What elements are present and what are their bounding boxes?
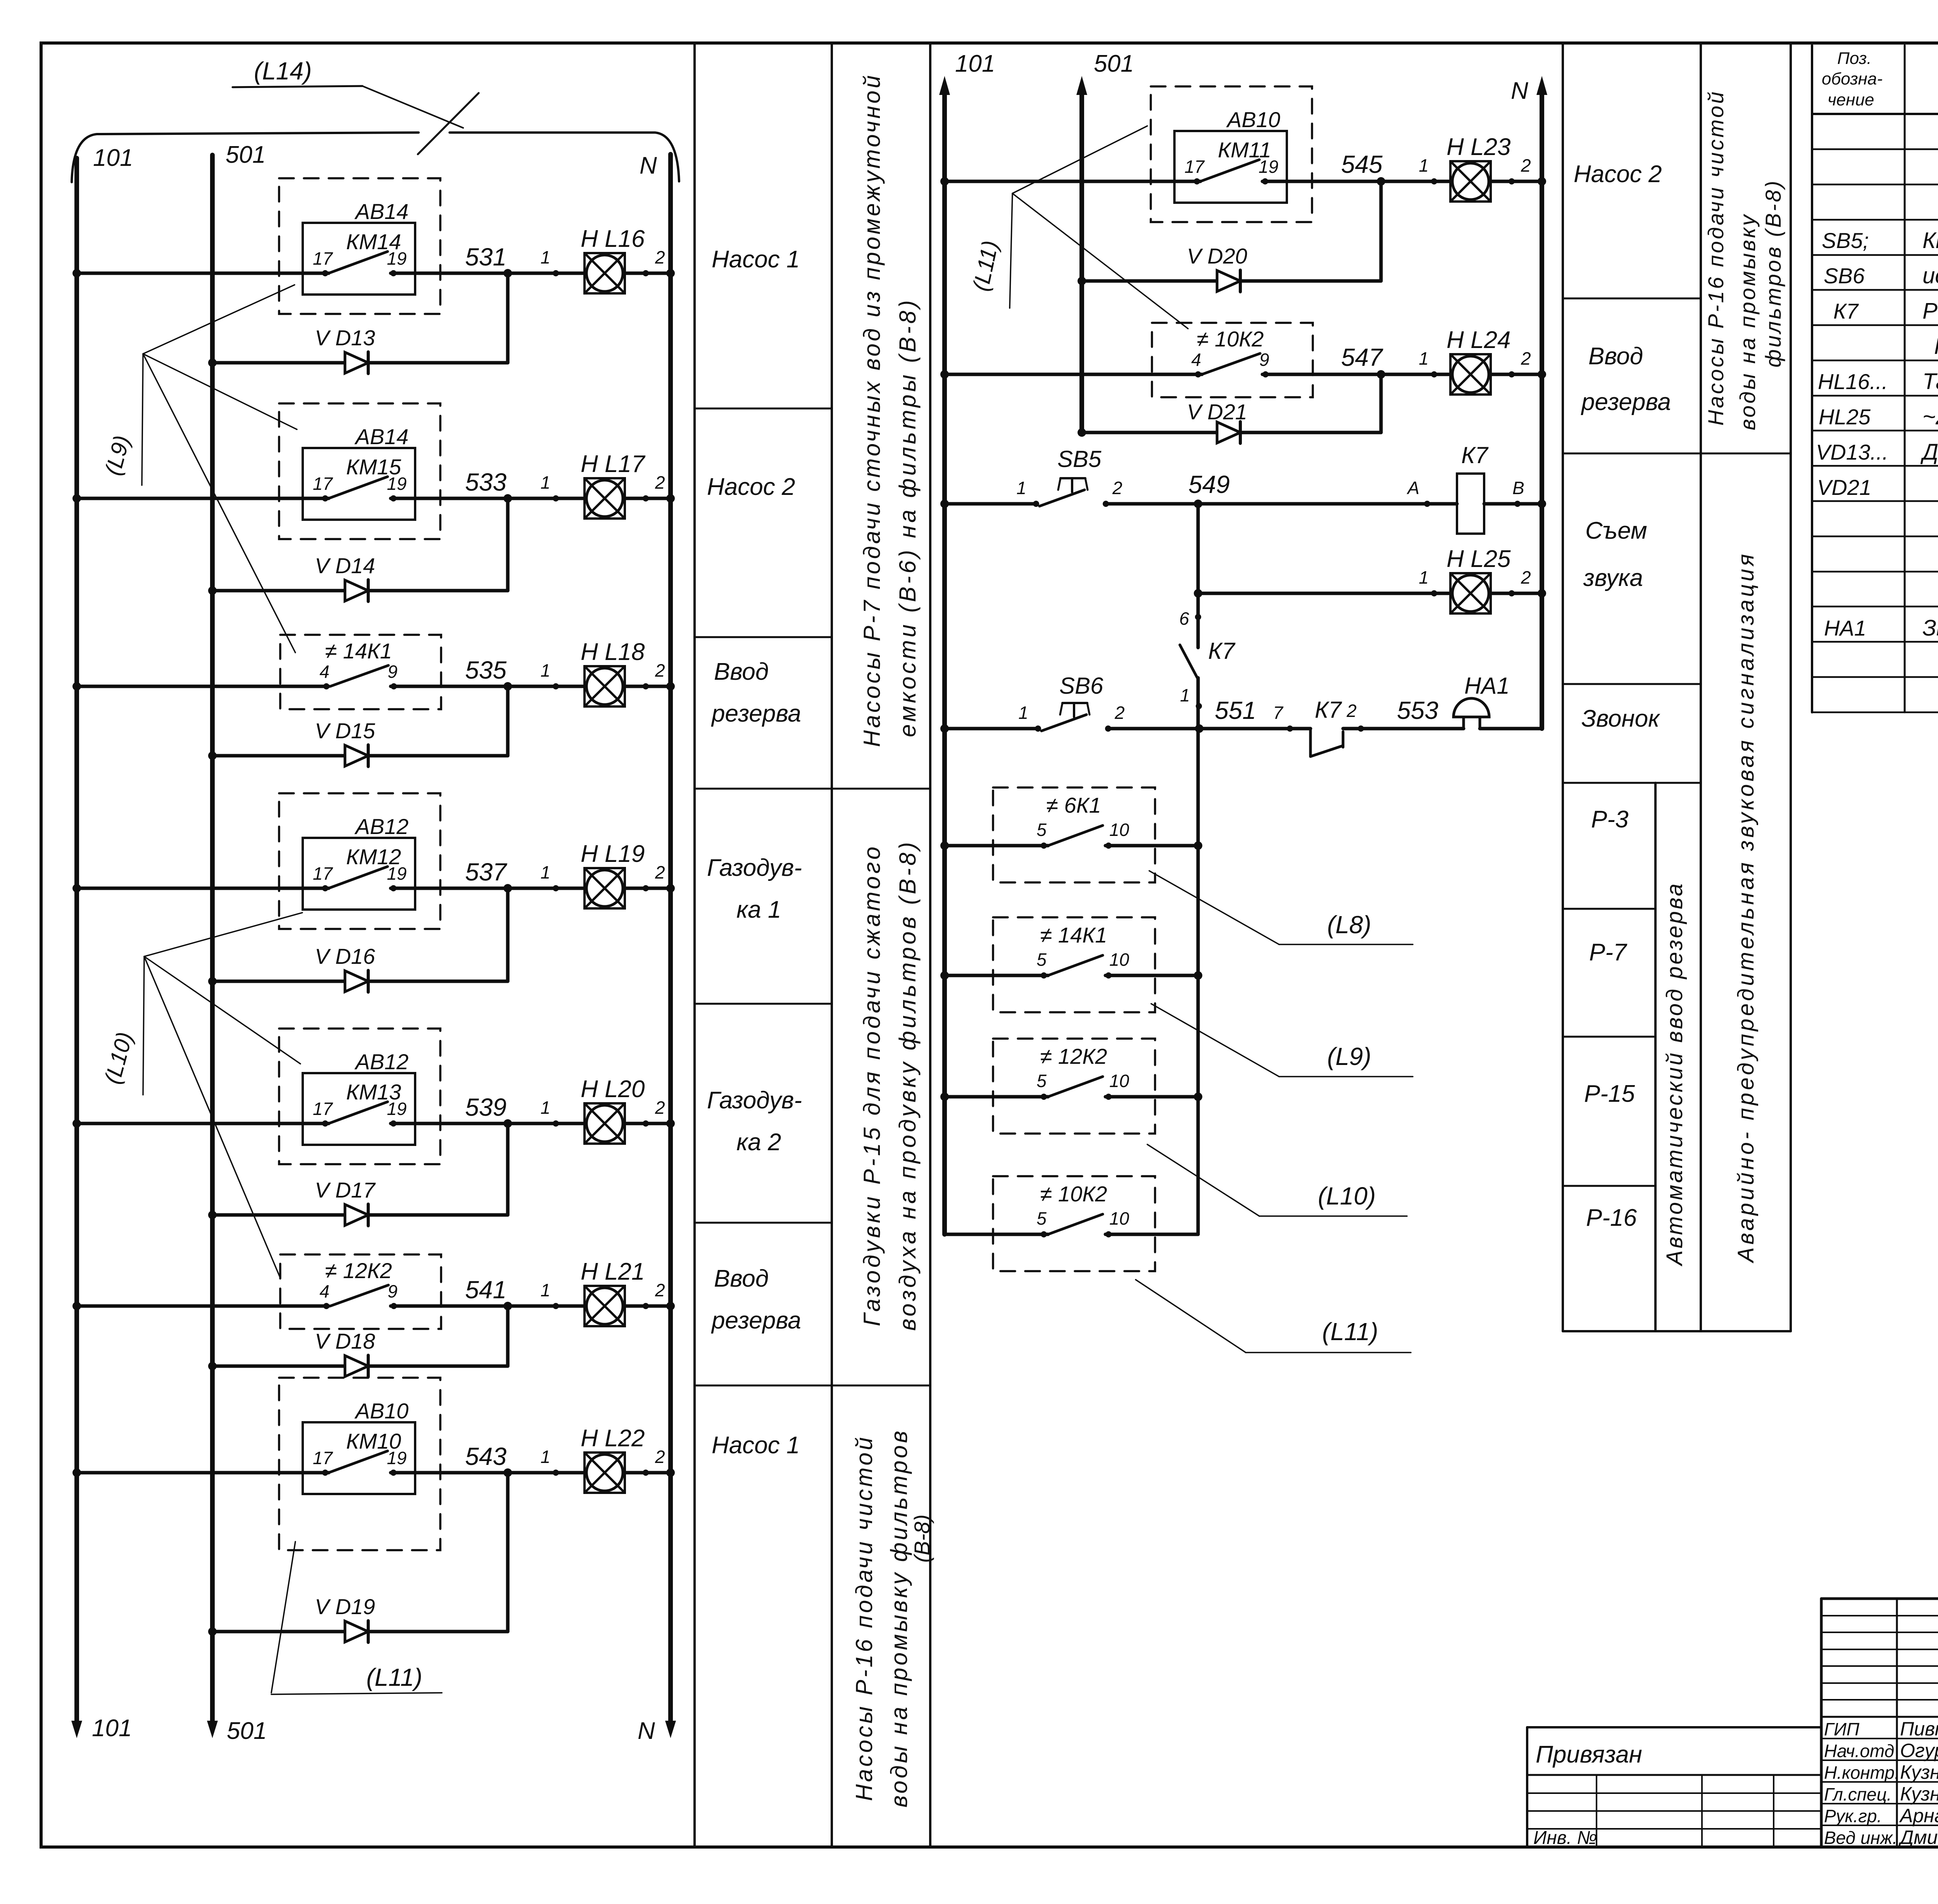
signature row line xyxy=(1821,1738,1938,1739)
title block top edge xyxy=(1821,1597,1938,1600)
pin 7 (K7 break contact) xyxy=(1287,725,1293,732)
parts table row line xyxy=(1812,465,1938,467)
label (L8) underline xyxy=(1279,944,1413,945)
lamp pin 1 xyxy=(553,1303,559,1309)
pin 6 (K7 contact) xyxy=(1195,614,1201,620)
svg-text:1: 1 xyxy=(540,862,550,882)
parts table row line xyxy=(1812,712,1938,713)
contact pins xyxy=(322,885,328,891)
branch wire down to diode row xyxy=(506,1473,510,1632)
lamp pin 1 xyxy=(1431,178,1437,184)
wire bell to bus N xyxy=(1480,727,1542,731)
parts table row line xyxy=(1812,184,1938,186)
svg-text:≠ 10К2: ≠ 10К2 xyxy=(1197,327,1264,351)
contact pins xyxy=(1194,178,1200,184)
junction 101 xyxy=(940,1092,949,1101)
lamp pin 1 xyxy=(553,495,559,501)
lamp HL24 xyxy=(1450,354,1491,395)
diode row wire VD20 xyxy=(1082,279,1381,283)
junction 101/SB6 rung xyxy=(940,724,949,733)
rung wire 541 contact to bus N xyxy=(391,1304,671,1308)
rung wire 549: bus101 to SB5 xyxy=(945,502,1036,506)
title block grid row xyxy=(1821,1682,1938,1684)
svg-text:17: 17 xyxy=(1185,157,1205,177)
svg-text:V D17: V D17 xyxy=(315,1178,376,1202)
contact pins xyxy=(322,1120,328,1127)
svg-text:H L24: H L24 xyxy=(1447,327,1510,353)
contactor КМ11 coil unit box xyxy=(1174,131,1287,203)
pin 1 (K7 contact) xyxy=(1196,703,1202,709)
title block grid/signature divider xyxy=(1821,1716,1938,1718)
junction on bus 101 xyxy=(72,1468,81,1477)
lamp pin 2 xyxy=(1509,178,1515,184)
привязан vertical 4576 xyxy=(1773,1775,1774,1847)
svg-text:H L21: H L21 xyxy=(581,1258,645,1285)
привязан block top xyxy=(1527,1726,1821,1728)
svg-text:VD21: VD21 xyxy=(1817,475,1871,500)
branch wire down to diode row xyxy=(506,1123,510,1215)
svg-text:1: 1 xyxy=(1419,567,1429,588)
svg-text:Автоматический ввод резерва: Автоматический ввод резерва xyxy=(1662,882,1687,1266)
svg-text:1: 1 xyxy=(540,472,550,493)
junction 549 to collector xyxy=(1194,500,1202,508)
привязан grid row xyxy=(1527,1792,1821,1794)
svg-text:Инв. №: Инв. № xyxy=(1533,1828,1597,1848)
svg-text:SB5: SB5 xyxy=(1057,446,1102,472)
svg-text:1: 1 xyxy=(540,660,550,681)
rung wire 543 from bus 101 to contact xyxy=(77,1471,329,1475)
svg-text:1: 1 xyxy=(540,247,550,267)
leader (Л9) to 14К1 box xyxy=(143,354,295,653)
rung wire 539 contact to bus N xyxy=(391,1122,671,1125)
bus 501 (left) xyxy=(210,155,215,1721)
svg-text:545: 545 xyxy=(1341,150,1383,178)
contact pins xyxy=(323,683,329,689)
lamp pin 1 xyxy=(553,885,559,891)
svg-text:N: N xyxy=(638,1718,655,1744)
parts table outer left edge xyxy=(1811,45,1813,712)
pin 2 (K7 break contact) xyxy=(1358,725,1364,732)
rung wire 535 from bus 101 to contact xyxy=(77,685,329,688)
svg-text:Огурцов: Огурцов xyxy=(1900,1740,1938,1761)
parts table row line xyxy=(1812,500,1938,502)
junction on bus 501 xyxy=(208,1362,217,1370)
svg-text:2: 2 xyxy=(1521,155,1531,176)
svg-text:Табло световое ТСМ-Ш-У3-01: Табло световое ТСМ-Ш-У3-01 ; xyxy=(1922,369,1938,394)
svg-text:Газодувки Р-15 для подачи сжат: Газодувки Р-15 для подачи сжатого xyxy=(859,844,885,1327)
svg-text:А: А xyxy=(1406,478,1419,498)
lamp pin 1 xyxy=(553,270,559,276)
junction 101/547 xyxy=(940,370,949,379)
bus 101 (left) xyxy=(74,158,79,1721)
svg-text:H L17: H L17 xyxy=(581,451,646,477)
svg-text:19: 19 xyxy=(387,474,407,494)
parts table row line xyxy=(1812,395,1938,397)
title block grid row xyxy=(1821,1615,1938,1616)
lamp pin 2 xyxy=(643,1303,649,1309)
junction on bus 101 xyxy=(72,884,81,893)
contact rung ≠10К2: wire to collector xyxy=(1105,1233,1198,1236)
middle label column divider (labels | Авто col) xyxy=(1654,783,1657,1331)
lamp pin 2 xyxy=(643,885,649,891)
bus 501 (middle) xyxy=(1079,93,1084,432)
svg-text:(L9): (L9) xyxy=(1327,1042,1371,1070)
contactor КМ14 coil unit box xyxy=(303,223,415,295)
rung wire 547 contact to bus N xyxy=(1262,373,1542,376)
lamp pin 1 xyxy=(553,1470,559,1476)
svg-text:2: 2 xyxy=(1112,478,1122,498)
rung wire 547 bus101 to contact xyxy=(945,373,1202,376)
middle label column bottom xyxy=(1563,1330,1791,1332)
contactor КМ15 coil unit box xyxy=(303,448,415,520)
contactor КМ10 coil unit box xyxy=(303,1422,415,1494)
leader (Л11) to KM10 box xyxy=(271,1542,295,1693)
K7 break contact xyxy=(1290,727,1310,731)
parts table col divider 1 xyxy=(1904,45,1906,712)
привязан grid row xyxy=(1527,1810,1821,1812)
svg-text:HL16...: HL16... xyxy=(1818,369,1888,394)
svg-text:К7: К7 xyxy=(1208,638,1236,664)
signature row line xyxy=(1821,1759,1938,1761)
svg-text:резерва: резерва xyxy=(711,700,801,727)
contact blade xyxy=(329,867,388,888)
leader (Л11) to АВ10 box xyxy=(1012,126,1147,193)
привязан vertical 4119 xyxy=(1596,1775,1597,1847)
leader line to (L10) xyxy=(1147,1144,1259,1216)
junction collector xyxy=(1194,971,1202,980)
junction 101/545 xyxy=(940,177,949,186)
diode VD15 xyxy=(345,745,368,767)
svg-text:H L20: H L20 xyxy=(581,1076,645,1103)
svg-text:Насос 1: Насос 1 xyxy=(712,1432,800,1459)
left label row separator xyxy=(695,636,832,638)
rung wire 545 bus101 to contact xyxy=(945,180,1200,183)
middle label separator Ввод/Съем (full) xyxy=(1563,453,1791,455)
svg-text:Р-15: Р-15 xyxy=(1584,1080,1635,1107)
junction on bus N xyxy=(666,682,675,691)
contact rung ≠6К1: wire bus101 to contact xyxy=(945,844,1048,848)
lamp HL22 xyxy=(585,1453,625,1493)
leader (Л10) to KM13 box xyxy=(144,956,300,1064)
svg-text:1: 1 xyxy=(1419,348,1429,369)
привязан row bottom xyxy=(1527,1774,1821,1776)
title block grid row xyxy=(1821,1632,1938,1633)
diode row wire VD21 xyxy=(1082,431,1381,434)
svg-text:535: 535 xyxy=(465,656,507,684)
svg-text:2: 2 xyxy=(1346,701,1357,721)
svg-text:Газодув-: Газодув- xyxy=(707,855,802,881)
leader (Л11) to 10К2 box xyxy=(1012,193,1188,329)
svg-text:(В-8): (В-8) xyxy=(910,1515,934,1563)
svg-text:Н.контр.: Н.контр. xyxy=(1824,1763,1900,1783)
svg-text:Ввод: Ввод xyxy=(1588,343,1643,370)
corner 501/VD21 xyxy=(1078,428,1086,437)
rung wire 533 contact to bus N xyxy=(391,497,671,500)
junction 101 xyxy=(940,841,949,850)
svg-text:V D20: V D20 xyxy=(1187,244,1247,268)
svg-text:≠ 14К1: ≠ 14К1 xyxy=(325,639,392,663)
svg-text:19: 19 xyxy=(1259,157,1278,177)
svg-text:звука: звука xyxy=(1583,565,1643,591)
svg-text:Насосы Р-16 подачи чистой: Насосы Р-16 подачи чистой xyxy=(851,1435,877,1801)
svg-text:емкости (В-6) на фильтры (: емкости (В-6) на фильтры (В-8) xyxy=(895,298,921,737)
rung wire 537 contact to bus N xyxy=(391,887,671,890)
svg-text:Р-16: Р-16 xyxy=(1586,1204,1637,1231)
junction on bus 501 xyxy=(208,1211,217,1219)
junction on bus N xyxy=(666,494,675,503)
contact ≠10К2 dashed enclosure xyxy=(1152,323,1313,397)
branch wire down to diode row xyxy=(506,1306,510,1366)
svg-text:Вед инж.: Вед инж. xyxy=(1824,1828,1897,1848)
contact blade xyxy=(329,1102,388,1123)
leader from (L14) to bracket xyxy=(362,86,463,128)
contact blade xyxy=(329,1451,388,1473)
svg-text:543: 543 xyxy=(465,1442,507,1470)
branch wire down to diode row xyxy=(506,686,510,756)
svg-text:НА1: НА1 xyxy=(1824,616,1866,640)
junction on bus 101 xyxy=(72,269,81,277)
svg-text:2: 2 xyxy=(1521,348,1531,369)
svg-text:1: 1 xyxy=(540,1280,550,1300)
svg-text:Привязан: Привязан xyxy=(1536,1741,1642,1768)
привязан block left edge xyxy=(1526,1727,1528,1847)
signature row line xyxy=(1821,1825,1938,1826)
contactor КМ11 (АВ10) dashed enclosure xyxy=(1151,86,1312,222)
junction 547/VD21 xyxy=(1377,370,1385,379)
svg-text:H L22: H L22 xyxy=(581,1425,645,1452)
rung wire 533 from bus 101 to contact xyxy=(77,497,329,500)
parts table row line xyxy=(1812,571,1938,573)
rung wire: bus101 to SB6 xyxy=(945,727,1038,731)
rung wire 541 from bus 101 to contact xyxy=(77,1304,329,1308)
svg-text:101: 101 xyxy=(955,50,995,77)
contactor КМ14 (АВ14) dashed enclosure xyxy=(279,178,440,314)
contact blade xyxy=(1202,353,1260,374)
svg-text:АВ10: АВ10 xyxy=(1226,107,1280,132)
contact rung ≠12К2: wire bus101 to contact xyxy=(945,1095,1048,1099)
svg-text:19: 19 xyxy=(387,863,407,884)
svg-text:Нач.отд: Нач.отд xyxy=(1824,1741,1894,1761)
contact blade xyxy=(329,252,388,273)
bus N (middle) xyxy=(1540,93,1544,729)
line group bracket (L14) xyxy=(72,133,679,182)
svg-text:H L25: H L25 xyxy=(1447,546,1511,572)
title block vertical 4894 xyxy=(1896,1599,1898,1847)
contact pins xyxy=(322,1470,328,1476)
svg-text:Дмитриева: Дмитриева xyxy=(1898,1826,1938,1848)
svg-text:(L10): (L10) xyxy=(1318,1182,1376,1210)
junction to diode branch xyxy=(503,1468,512,1477)
svg-text:10: 10 xyxy=(1109,949,1129,970)
svg-text:HL25: HL25 xyxy=(1819,405,1871,429)
svg-text:АВ14: АВ14 xyxy=(354,424,409,449)
junction on bus 101 xyxy=(72,1119,81,1128)
junction on bus 501 xyxy=(208,977,217,986)
pin В xyxy=(1514,501,1521,507)
lamp pin 2 xyxy=(643,270,649,276)
diode row wire VD16 xyxy=(212,980,508,983)
rung wire 545 contact to bus N xyxy=(1262,180,1542,183)
diode VD19 xyxy=(345,1621,368,1642)
branch wire down to diode row xyxy=(506,273,510,363)
junction to diode branch xyxy=(503,269,512,277)
svg-text:НА1: НА1 xyxy=(1464,673,1510,699)
left section divider (labels | vertical notes) xyxy=(831,43,833,1847)
bell НА1 xyxy=(1453,698,1489,717)
contact ≠14К1 dashed enclosure xyxy=(993,917,1155,1012)
button SB6 contact wire xyxy=(1108,727,1290,731)
svg-text:воздуха на продувку фильтров (: воздуха на продувку фильтров (В-8) xyxy=(895,839,921,1331)
svg-text:ГИП: ГИП xyxy=(1824,1719,1860,1739)
middle label column left edge xyxy=(1562,43,1564,1331)
svg-text:Поз.: Поз. xyxy=(1837,49,1872,68)
junction to diode branch xyxy=(503,682,512,691)
svg-text:10: 10 xyxy=(1109,1071,1129,1091)
svg-text:V D21: V D21 xyxy=(1187,400,1247,424)
svg-text:Съем: Съем xyxy=(1585,517,1647,544)
left section divider (schematic | labels) xyxy=(693,43,696,1847)
junction collector xyxy=(1194,1092,1202,1101)
junction to diode branch xyxy=(503,884,512,893)
svg-text:2: 2 xyxy=(655,472,665,493)
svg-text:2: 2 xyxy=(655,1098,665,1118)
diode VD18 xyxy=(345,1355,368,1377)
contact blade xyxy=(1048,1077,1103,1097)
svg-text:10: 10 xyxy=(1109,1208,1129,1229)
svg-text:Гл.спец.: Гл.спец. xyxy=(1824,1784,1892,1804)
svg-text:(L14): (L14) xyxy=(254,57,312,85)
svg-text:N: N xyxy=(1511,78,1528,104)
collector wire to lower rungs xyxy=(1197,729,1200,1234)
svg-text:549: 549 xyxy=(1188,470,1230,498)
parts table row line xyxy=(1812,430,1938,432)
leader (Л9) to KM15 box xyxy=(143,354,297,429)
contact ≠14К1 dashed enclosure xyxy=(280,635,441,709)
lamp HL23 xyxy=(1450,161,1491,202)
leader line to (L9) xyxy=(1151,1004,1279,1077)
svg-text:17: 17 xyxy=(313,474,333,494)
svg-text:ка 1: ка 1 xyxy=(736,896,781,923)
leader (Л10) to KM12 box xyxy=(144,913,302,956)
contact blade xyxy=(1200,160,1259,181)
wire 553 to bell xyxy=(1343,727,1464,731)
leader (Л9) to KM14 box xyxy=(143,285,295,354)
label (L10) underline xyxy=(1259,1215,1407,1217)
junction on bus N xyxy=(666,1468,675,1477)
svg-text:(L11): (L11) xyxy=(1322,1318,1378,1346)
relay K7 coil xyxy=(1457,474,1484,534)
signature row line xyxy=(1821,1781,1938,1783)
left section divider (vertical notes | middle area) xyxy=(929,43,931,1847)
leader fan (Л10) vertex line xyxy=(143,956,144,1095)
svg-text:5: 5 xyxy=(1036,1071,1047,1091)
parts table row line xyxy=(1812,148,1938,150)
parts table row line xyxy=(1812,606,1938,608)
collector wire from 549 down xyxy=(1197,504,1200,648)
svg-text:2: 2 xyxy=(1114,703,1125,723)
contactor КМ15 (АВ14) dashed enclosure xyxy=(279,403,440,539)
contact pins xyxy=(1195,371,1201,377)
left section row separator (full) xyxy=(695,1385,930,1387)
svg-text:H L18: H L18 xyxy=(581,639,645,665)
contactor КМ13 (АВ12) dashed enclosure xyxy=(279,1029,440,1164)
svg-text:VD13...: VD13... xyxy=(1816,440,1888,464)
leader (Л10) to 12К2 box xyxy=(144,956,280,1277)
rung wire 537 from bus 101 to contact xyxy=(77,887,329,890)
svg-text:19: 19 xyxy=(387,1448,407,1468)
junction N/545 xyxy=(1538,177,1546,186)
svg-text:4: 4 xyxy=(319,1281,329,1301)
contact rung ≠12К2: wire to collector xyxy=(1105,1095,1198,1099)
contact ≠12К2 dashed enclosure xyxy=(280,1254,441,1329)
junction on bus 101 xyxy=(72,682,81,691)
svg-text:H L16: H L16 xyxy=(581,226,645,252)
diode VD13 xyxy=(345,352,368,374)
title block left edge xyxy=(1820,1599,1823,1847)
lamp pin 2 xyxy=(1509,371,1515,377)
title block grid row xyxy=(1821,1665,1938,1667)
button SB6 xyxy=(1035,725,1041,732)
contact blade xyxy=(330,665,388,686)
lamp pin 2 xyxy=(1509,590,1515,596)
svg-text:Кнопка управления КЕ011У3: Кнопка управления КЕ011У3 xyxy=(1922,228,1938,253)
svg-text:H L23: H L23 xyxy=(1447,134,1510,160)
svg-text:Насосы Р-16 подачи чистой: Насосы Р-16 подачи чистой xyxy=(1704,90,1728,426)
svg-text:501: 501 xyxy=(226,141,266,168)
svg-text:2: 2 xyxy=(655,1280,665,1300)
diode VD14 xyxy=(345,580,368,601)
junction N/HL25 xyxy=(1538,589,1546,598)
lamp HL18 xyxy=(585,666,625,706)
parts table row line xyxy=(1812,360,1938,362)
rung wire 543 contact to bus N xyxy=(391,1471,671,1475)
svg-text:АВ12: АВ12 xyxy=(354,814,409,839)
diode VD20 xyxy=(1217,270,1240,292)
svg-text:17: 17 xyxy=(313,1099,333,1119)
button SB5 xyxy=(1033,501,1039,507)
svg-text:К7: К7 xyxy=(1461,442,1489,468)
svg-text:Звонок: Звонок xyxy=(1581,705,1660,732)
svg-text:10: 10 xyxy=(1109,820,1129,840)
junction on bus N xyxy=(666,1119,675,1128)
contact pins xyxy=(1041,972,1047,979)
svg-text:К7: К7 xyxy=(1315,697,1342,723)
contact ≠12К2 dashed enclosure xyxy=(993,1039,1155,1134)
pin А xyxy=(1424,501,1430,507)
left label row separator xyxy=(695,1003,832,1005)
svg-text:501: 501 xyxy=(1094,50,1134,77)
lamp HL19 xyxy=(585,868,625,908)
привязан vertical 4391 xyxy=(1701,1775,1703,1847)
svg-text:539: 539 xyxy=(465,1093,507,1121)
left section row separator (full) xyxy=(695,788,930,790)
contact pins xyxy=(322,270,328,276)
svg-text:SB6: SB6 xyxy=(1059,673,1103,699)
svg-text:SB5;: SB5; xyxy=(1822,228,1869,253)
lamp pin 1 xyxy=(1431,371,1437,377)
lamp HL17 xyxy=(585,478,625,519)
svg-text:4: 4 xyxy=(1191,350,1201,370)
leader line to (L11) xyxy=(1136,1280,1246,1353)
lamp pin 1 xyxy=(553,1120,559,1127)
junction 545/VD20 xyxy=(1377,177,1385,186)
svg-text:АВ12: АВ12 xyxy=(354,1049,409,1074)
svg-text:Газодув-: Газодув- xyxy=(707,1087,802,1114)
svg-text:2: 2 xyxy=(655,862,665,882)
svg-text:РПУ-2-3622 0У3Б; ~220В;: РПУ-2-3622 0У3Б; ~220В; 2з+2р xyxy=(1934,334,1938,359)
svg-text:SB6: SB6 xyxy=(1824,264,1865,288)
svg-text:17: 17 xyxy=(313,863,333,884)
